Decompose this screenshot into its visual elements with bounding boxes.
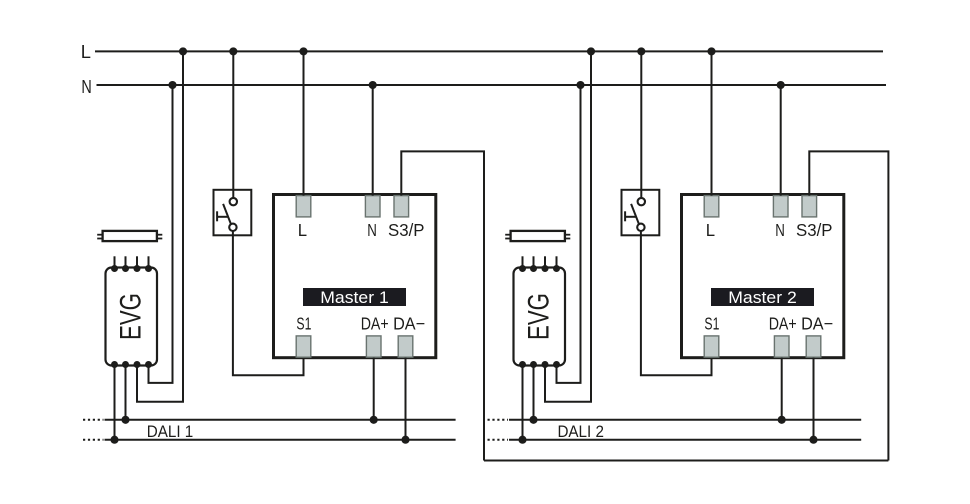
svg-text:L: L <box>81 41 91 62</box>
svg-text:DALI 1: DALI 1 <box>147 423 194 441</box>
terminal S3/P of Master 2 <box>802 196 817 217</box>
junction dot L rail / switch T1 <box>229 47 237 55</box>
wire S3/P of Master 2 routing bus <box>809 151 888 460</box>
wire EVG2 pin3 to L rail <box>545 51 591 401</box>
wire DA&#8722; of Master 2 to DALI 2 lower line <box>813 358 815 440</box>
junction dot EVG2 top pin 3 <box>542 265 549 272</box>
terminal S1 of Master 2 <box>704 336 719 357</box>
svg-text:N: N <box>775 220 785 240</box>
terminal N of Master 1 <box>365 196 380 217</box>
wire EVG2 lamp pin 2 <box>533 256 535 267</box>
terminal S1 of Master 1 <box>296 336 311 357</box>
wire EVG2 pin4 to N rail <box>557 85 581 383</box>
svg-text:S1: S1 <box>704 313 719 333</box>
wire DA&#8722; of Master 1 to DALI 1 lower line <box>405 358 407 440</box>
fluorescent lamp tube LA1 <box>97 231 162 241</box>
wire EVG2 lamp pin 4 <box>556 256 558 267</box>
junction dot DA+ / DALI 1 upper <box>370 416 378 424</box>
wire EVG1 pin2 to DALI 1 upper line <box>125 366 127 420</box>
terminal L of Master 2 <box>704 196 719 217</box>
junction dot EVG1 bottom pin 1 <box>111 361 118 368</box>
wire L rail <box>95 50 883 52</box>
svg-text:DA+: DA+ <box>769 313 797 333</box>
junction dot EVG1 pin1 / DALI 1 lower <box>110 436 118 444</box>
junction dot EVG2 pin1 / DALI 2 lower <box>518 436 526 444</box>
terminal S3/P of Master 1 <box>394 196 409 217</box>
wire L rail to Master 1 terminal L <box>303 51 305 195</box>
wire L rail to switch T2 <box>640 51 642 198</box>
wire DALI 2 lower line <box>509 439 861 441</box>
junction dot EVG2 pin2 / DALI 2 upper <box>529 416 537 424</box>
wire DALI 1 lower line dashed start <box>83 439 104 441</box>
wire N rail <box>97 84 887 86</box>
junction dot L rail / EVG1 <box>179 47 187 55</box>
junction dot L rail / Master 2 <box>707 47 715 55</box>
svg-text:EVG: EVG <box>114 293 147 340</box>
junction dot DA&#8722; / DALI 2 lower <box>809 436 817 444</box>
svg-text:N: N <box>81 76 91 97</box>
wire DALI 1 upper line dashed start <box>83 419 104 421</box>
junction dot EVG2 top pin 4 <box>553 265 560 272</box>
wire EVG2 pin2 to DALI 2 upper line <box>533 366 535 420</box>
wire N rail to Master 2 terminal N <box>780 85 782 196</box>
junction dot EVG1 bottom pin 4 <box>145 361 152 368</box>
junction dot DA+ / DALI 2 upper <box>778 416 786 424</box>
junction dot EVG1 pin2 / DALI 1 upper <box>121 416 129 424</box>
terminal DA+ of Master 1 <box>366 336 381 357</box>
junction dot N rail / Master 2 <box>777 81 785 89</box>
ballast box EVG1 <box>106 268 158 366</box>
junction dot N rail / EVG2 <box>576 81 584 89</box>
wire DA+ of Master 1 to DALI 1 upper line <box>373 358 375 420</box>
junction dot EVG2 bottom pin 3 <box>542 361 549 368</box>
wire EVG1 lamp pin 3 <box>136 256 138 267</box>
junction dot EVG2 bottom pin 1 <box>519 361 526 368</box>
junction dot EVG1 top pin 3 <box>134 265 141 272</box>
junction dot N rail / EVG1 <box>168 81 176 89</box>
svg-text:S3/P: S3/P <box>388 220 425 240</box>
svg-text:S1: S1 <box>296 313 311 333</box>
junction dot EVG2 bottom pin 4 <box>553 361 560 368</box>
wire EVG1 pin1 to DALI 1 lower line <box>114 366 116 440</box>
control unit Master 2 box <box>682 195 844 358</box>
wire EVG2 pin1 to DALI 2 lower line <box>522 366 524 440</box>
junction dot EVG1 top pin 2 <box>122 265 129 272</box>
svg-text:L: L <box>706 220 716 240</box>
wire DA+ of Master 2 to DALI 2 upper line <box>781 358 783 420</box>
ballast box EVG2 <box>514 268 566 366</box>
svg-text:DA−: DA− <box>801 313 833 333</box>
svg-text:EVG: EVG <box>522 293 555 340</box>
control unit Master 1 box <box>274 195 436 358</box>
wire EVG2 lamp pin 1 <box>522 256 524 267</box>
junction dot L rail / switch T2 <box>637 47 645 55</box>
wire L rail to Master 2 terminal L <box>711 51 713 195</box>
wire DALI 2 upper line <box>509 419 861 421</box>
svg-text:N: N <box>367 220 377 240</box>
svg-text:Master 2: Master 2 <box>728 289 797 307</box>
wire EVG2 lamp pin 3 <box>544 256 546 267</box>
wire switch T1 to S1 terminal of Master 1 <box>233 231 304 375</box>
svg-text:DA+: DA+ <box>361 313 389 333</box>
junction dot EVG2 bottom pin 2 <box>530 361 537 368</box>
wire EVG1 lamp pin 1 <box>114 256 116 267</box>
pushbutton switch T2 <box>622 190 660 236</box>
junction dot EVG2 top pin 1 <box>519 265 526 272</box>
wire switch T2 to S1 terminal of Master 2 <box>641 231 712 375</box>
junction dot DA&#8722; / DALI 1 lower <box>401 436 409 444</box>
svg-text:L: L <box>298 220 308 240</box>
wire EVG1 pin4 to N rail <box>149 85 173 383</box>
svg-text:DA−: DA− <box>393 313 425 333</box>
wire DALI 1 lower line <box>105 439 456 441</box>
wire EVG1 lamp pin 2 <box>125 256 127 267</box>
wire EVG1 pin3 to L rail <box>137 51 183 401</box>
svg-text:Master 1: Master 1 <box>320 289 389 307</box>
junction dot EVG1 bottom pin 3 <box>134 361 141 368</box>
name plate Master 2 <box>711 288 814 306</box>
terminal DA&#8722; of Master 2 <box>806 336 821 357</box>
wire L rail to switch T1 <box>232 51 234 198</box>
wire EVG1 lamp pin 4 <box>148 256 150 267</box>
wire DALI 2 lower line dashed start <box>488 439 509 441</box>
svg-text:S3/P: S3/P <box>796 220 833 240</box>
pushbutton switch T1 <box>214 190 252 236</box>
name plate Master 1 <box>303 288 406 306</box>
junction dot EVG1 bottom pin 2 <box>122 361 129 368</box>
junction dot EVG1 top pin 1 <box>111 265 118 272</box>
svg-text:DALI 2: DALI 2 <box>557 423 604 441</box>
wire DALI 2 upper line dashed start <box>488 419 509 421</box>
junction dot N rail / Master 1 <box>369 81 377 89</box>
wire DALI 1 upper line <box>105 419 456 421</box>
terminal DA+ of Master 2 <box>774 336 789 357</box>
junction dot EVG1 top pin 4 <box>145 265 152 272</box>
wire S3/P of Master 1 routing bus <box>401 151 484 460</box>
terminal L of Master 1 <box>296 196 311 217</box>
wire N rail to Master 1 terminal N <box>372 85 374 196</box>
fluorescent lamp tube LA2 <box>505 231 570 241</box>
junction dot L rail / Master 1 <box>299 47 307 55</box>
junction dot EVG2 top pin 2 <box>530 265 537 272</box>
wire S3/P bus between Master 1 and Master 2 <box>484 460 888 462</box>
junction dot L rail / EVG2 <box>587 47 595 55</box>
terminal DA&#8722; of Master 1 <box>398 336 413 357</box>
terminal N of Master 2 <box>773 196 788 217</box>
